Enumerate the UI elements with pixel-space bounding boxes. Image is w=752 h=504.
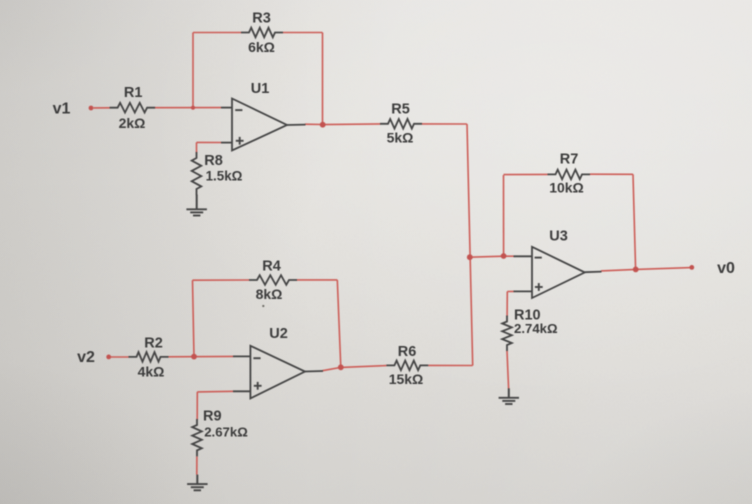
svg-text:15kΩ: 15kΩ <box>389 371 424 387</box>
svg-text:U2: U2 <box>269 326 288 342</box>
svg-text:v1: v1 <box>53 101 71 118</box>
svg-text:8kΩ: 8kΩ <box>256 286 283 302</box>
svg-text:4kΩ: 4kΩ <box>138 364 165 380</box>
svg-text:R5: R5 <box>391 102 410 118</box>
svg-text:R8: R8 <box>204 153 223 169</box>
svg-text:5kΩ: 5kΩ <box>387 130 414 146</box>
svg-text:v2: v2 <box>77 349 95 366</box>
svg-text:2.67kΩ: 2.67kΩ <box>204 425 248 440</box>
svg-text:v0: v0 <box>717 260 735 277</box>
svg-text:6kΩ: 6kΩ <box>248 39 275 55</box>
svg-text:U1: U1 <box>251 81 270 97</box>
svg-text:R2: R2 <box>144 335 163 351</box>
svg-text:R9: R9 <box>203 409 222 425</box>
svg-text:R6: R6 <box>398 344 417 360</box>
svg-text:R1: R1 <box>124 85 143 101</box>
svg-text:2kΩ: 2kΩ <box>119 115 146 131</box>
svg-text:2.74kΩ: 2.74kΩ <box>514 321 558 336</box>
svg-text:R4: R4 <box>262 259 281 275</box>
svg-text:U3: U3 <box>549 229 568 245</box>
svg-text:1.5kΩ: 1.5kΩ <box>206 169 243 184</box>
svg-text:R3: R3 <box>252 11 271 27</box>
svg-text:10kΩ: 10kΩ <box>549 179 584 195</box>
svg-text:R7: R7 <box>560 152 579 168</box>
